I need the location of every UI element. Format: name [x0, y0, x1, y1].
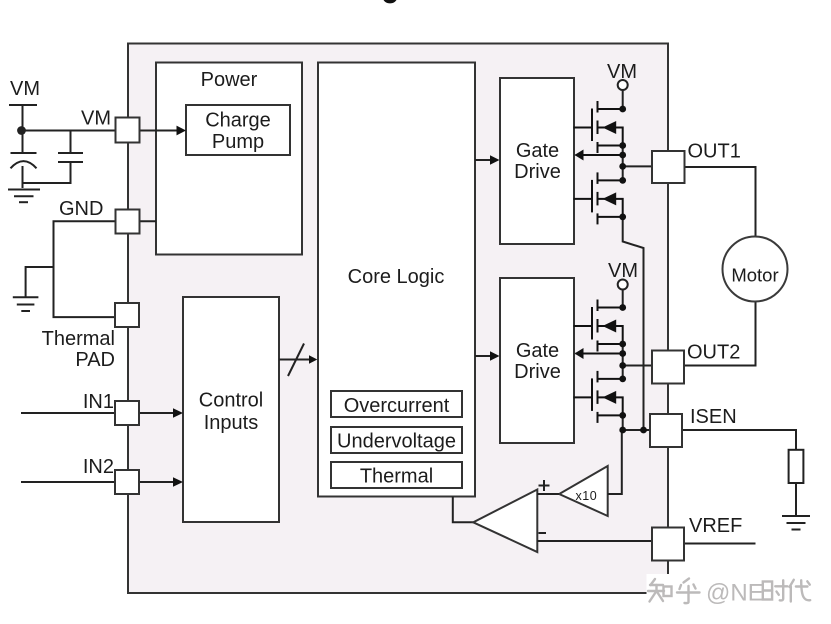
- svg-text:Control: Control: [199, 390, 263, 412]
- svg-text:Gate: Gate: [516, 140, 559, 162]
- svg-text:Thermal: Thermal: [42, 328, 115, 350]
- svg-text:Drive: Drive: [514, 161, 561, 183]
- svg-text:Gate: Gate: [516, 340, 559, 362]
- svg-text:VM: VM: [608, 260, 638, 282]
- svg-text:GND: GND: [59, 198, 103, 220]
- svg-text:Drive: Drive: [514, 361, 561, 383]
- svg-text:@NE: @NE: [706, 580, 764, 607]
- svg-text:VREF: VREF: [689, 515, 742, 537]
- svg-text:Core Logic: Core Logic: [348, 266, 445, 288]
- svg-text:Inputs: Inputs: [204, 412, 258, 434]
- svg-text:VM: VM: [81, 108, 111, 130]
- svg-text:ISEN: ISEN: [690, 406, 737, 428]
- svg-text:Thermal: Thermal: [360, 466, 433, 488]
- svg-text:Overcurrent: Overcurrent: [344, 395, 450, 417]
- svg-text:IN2: IN2: [83, 456, 114, 478]
- svg-text:PAD: PAD: [75, 349, 115, 371]
- svg-text:Motor: Motor: [731, 265, 778, 286]
- svg-text:VM: VM: [607, 61, 637, 83]
- svg-text:OUT1: OUT1: [688, 141, 741, 163]
- svg-text:Undervoltage: Undervoltage: [337, 431, 456, 453]
- svg-text:Charge: Charge: [205, 110, 271, 132]
- svg-text:Power: Power: [201, 69, 258, 91]
- svg-text:OUT2: OUT2: [687, 342, 740, 364]
- svg-text:VM: VM: [10, 78, 40, 100]
- svg-text:Pump: Pump: [212, 131, 264, 153]
- svg-text:x10: x10: [576, 489, 598, 503]
- svg-text:IN1: IN1: [83, 391, 114, 413]
